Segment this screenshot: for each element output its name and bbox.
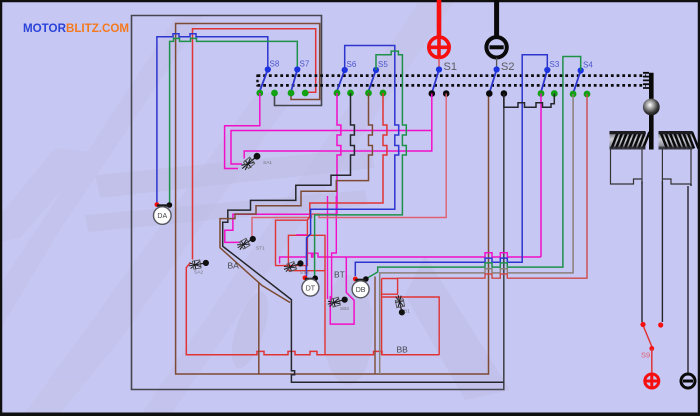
connector strip dotted band [258, 73, 650, 88]
svg-text:S4: S4 [583, 61, 593, 70]
svg-text:S6: S6 [347, 60, 357, 69]
brake switch small red box [382, 279, 398, 295]
wire: red S5 contact to ST2 box [307, 93, 387, 220]
switch S4 [574, 71, 581, 93]
red relay box around ST2 bulb [276, 220, 308, 274]
svg-text:BA: BA [228, 261, 240, 271]
svg-text:S1: S1 [444, 61, 457, 73]
bottom negative terminal [681, 374, 695, 388]
svg-text:DB: DB [356, 287, 366, 294]
wire: magenta spur left of DT [296, 234, 306, 236]
wire: brown loop S7 contact to S2 contact [176, 24, 489, 375]
wire: magenta S6 contact staircase down to ST1 bulb [225, 93, 341, 242]
magenta turn-lamp box around SB2 bulb [330, 257, 354, 324]
wire: magenta stubs into SB2 [328, 196, 337, 299]
watermark swoosh shapes [0, 0, 455, 416]
switch S3 [541, 70, 547, 92]
battery positive terminal symbol at S1 [429, 37, 449, 57]
svg-text:BB: BB [397, 345, 409, 355]
wire: green S4 top loop to DB right terminal [367, 57, 581, 279]
wire: red loop S8 right contact down left side to SA2 and bottom run [186, 29, 439, 355]
battery negative feed stem (black) [494, 0, 499, 37]
wire: gray S4-left contact down and to bottom brown run [380, 94, 573, 374]
svg-text:MOTORBLITZ.COM: MOTORBLITZ.COM [23, 22, 129, 35]
wire: brown staircase S5-left... S6 area contact down diagonal [220, 93, 372, 303]
svg-text:S2: S2 [501, 61, 514, 73]
svg-text:S8: S8 [270, 60, 280, 69]
wire: green headlight loop S7 to DA [170, 38, 298, 205]
wire: brown small vertical near DB [374, 277, 376, 375]
wire: magenta S3 contact to turnsignal box [346, 94, 541, 258]
bulb SB2 [327, 294, 349, 308]
bulb SB1 (vertical) [394, 294, 407, 316]
svg-text:ST2: ST2 [300, 270, 309, 276]
svg-text:SA2: SA2 [194, 270, 203, 276]
fixed contact dots (green) below band [256, 90, 590, 98]
magneto right coil block [659, 131, 699, 150]
bulb ST2 [282, 258, 305, 274]
battery negative terminal symbol at S2 [486, 37, 506, 57]
wire: salmon S1-right contact to ST1 area [252, 94, 446, 242]
svg-text:S5: S5 [378, 60, 388, 69]
svg-text:DA: DA [157, 213, 167, 220]
bulb ST1 [235, 233, 257, 251]
wire: magneto output left to S9 [641, 182, 643, 323]
kickstand switch S9 [640, 322, 645, 327]
wire: blue headlight loop S8 to DA [157, 34, 268, 205]
switch S2 [490, 70, 497, 93]
switch S5 [369, 70, 377, 91]
bulb SA1 [239, 150, 263, 172]
wire: magenta S1-left contact to SA1 bulb (inner loop) [244, 94, 432, 159]
svg-text:SA1: SA1 [263, 160, 272, 166]
wire: magneto frame to bottom negative terminal [688, 184, 691, 373]
svg-text:DT: DT [306, 285, 316, 292]
svg-text:B1: B1 [404, 309, 410, 315]
headlamp DA [154, 202, 173, 224]
wire: magneto output right to S9 [661, 182, 663, 323]
switch S8 lever and moving contact [260, 66, 584, 92]
wire: black S2-right contact jumper to S3-right contact [504, 94, 554, 108]
brake lamp big red box BB [382, 294, 440, 355]
wire: green S5 top loop to DT right terminal [315, 51, 407, 278]
switch S6 [337, 70, 345, 91]
wire: engine ground loop (dark gray) [132, 16, 504, 390]
svg-text:ST1: ST1 [256, 246, 265, 252]
bulb SA2 [188, 258, 209, 271]
battery positive feed stem (red) [437, 0, 442, 36]
wire: dark red S4-right contact to brake box [398, 94, 587, 278]
switch S1 [432, 70, 439, 93]
turn lamp DT [302, 275, 319, 296]
bottom positive terminal [645, 374, 659, 388]
switch S7 [291, 70, 297, 92]
switch labels [270, 60, 594, 70]
svg-text:BT: BT [334, 270, 345, 280]
magneto left coil block [610, 131, 650, 150]
svg-text:SB2: SB2 [340, 306, 349, 312]
magneto rotor bar [649, 73, 654, 150]
svg-text:S9: S9 [641, 351, 650, 360]
svg-text:S7: S7 [300, 60, 310, 69]
wire: blue S6 top loop to DT left terminal [307, 46, 399, 278]
svg-text:S3: S3 [550, 60, 560, 69]
wire: black staircase S6-right contact to lower diagonal [223, 93, 504, 382]
red relay box B around ST2 and feed to brake run [288, 235, 325, 354]
magneto frame outline [611, 150, 692, 185]
wire: magenta horizontal to ST2 bulb [280, 253, 347, 263]
wire: magenta branch junction to S6 contact vertical [231, 131, 432, 165]
wire: magenta S8-left contact to SA1 bulb [225, 93, 260, 169]
wire: blue S3 top loop to DB left terminal [355, 55, 547, 276]
wire: brown branch down to bottom run [258, 282, 260, 374]
turn lamp DB [352, 276, 369, 298]
fixed contact dots (black) below band [429, 90, 508, 97]
magneto rotor ball [643, 99, 660, 116]
